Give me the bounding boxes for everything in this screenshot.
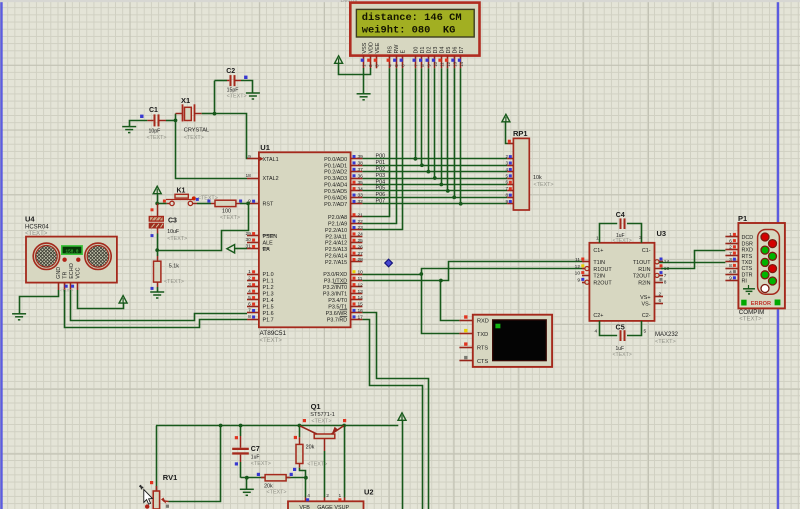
wire LCD RS to U1 pin 21: [362, 68, 389, 216]
P1 pin 7 RTS: [725, 255, 738, 257]
svg-text:P0.3/AD3: P0.3/AD3: [324, 176, 347, 182]
button K1: [157, 203, 167, 205]
svg-text:6: 6: [729, 238, 732, 244]
power terminal VCC (reset): [153, 186, 161, 194]
wire bus P07 U1 to RP1: [362, 203, 507, 205]
svg-text:3: 3: [505, 160, 508, 165]
svg-text:VEE: VEE: [375, 42, 381, 53]
wire U4 GND to ground: [20, 290, 59, 313]
wire VCC to RP1 pin 1: [506, 122, 508, 144]
svg-text:39: 39: [358, 154, 364, 160]
wire RV1 wiper to rail drop: [169, 426, 221, 502]
svg-text:P3.3/INT1: P3.3/INT1: [323, 291, 347, 297]
svg-text:8: 8: [664, 280, 667, 286]
svg-text:P1.6: P1.6: [263, 311, 274, 317]
svg-text:6: 6: [248, 301, 251, 307]
wire rail down to C7: [240, 426, 242, 437]
junction RST node: [246, 202, 250, 206]
R4 markers: [294, 436, 297, 439]
svg-text:10: 10: [575, 271, 581, 277]
U1 pin 5 P1.4: [247, 299, 259, 301]
svg-text:VDD: VDD: [368, 42, 374, 53]
U1 pin 39 P0.0/AD0: [351, 158, 363, 160]
wire U1 RXD (pin10) to MAX232 R1OUT: [362, 274, 421, 276]
svg-text:U2: U2: [364, 488, 374, 497]
svg-text:P2.7/A15: P2.7/A15: [325, 260, 347, 266]
svg-text:C1+: C1+: [593, 248, 603, 254]
wire C7 bottom node: [241, 477, 306, 479]
wire LCD D5 drop: [447, 68, 449, 191]
U1 pin 2 P1.1: [247, 280, 259, 282]
load cell U2 body: [288, 501, 364, 509]
ground (LCD VSS): [357, 94, 371, 100]
svg-text:10uF: 10uF: [167, 229, 179, 235]
svg-text:36: 36: [358, 173, 364, 179]
svg-text:P2.0/A8: P2.0/A8: [328, 215, 347, 221]
U4 left transducer: [33, 243, 59, 269]
svg-text:C2+: C2+: [593, 313, 603, 319]
U1 pin 23 P2.2/A10: [351, 229, 363, 231]
P1 DB9 pin 3 indicator: [761, 258, 769, 266]
svg-text:T1IN: T1IN: [593, 260, 605, 266]
svg-text:AT89C51: AT89C51: [260, 330, 287, 337]
U4 distance display: [62, 246, 82, 254]
svg-text:ECHO: ECHO: [69, 263, 75, 279]
svg-text:150.0: 150.0: [66, 249, 79, 254]
svg-text:P00: P00: [376, 154, 386, 160]
junction reset top node: [155, 202, 159, 206]
svg-text:P2.2/A10: P2.2/A10: [325, 228, 347, 234]
P1 pin 9 RI: [725, 280, 738, 282]
svg-text:ERROR: ERROR: [751, 301, 771, 307]
wire rail down to RV1: [156, 426, 158, 492]
wire R1IN to COMPIM RXD: [661, 251, 725, 269]
U1 pin 8 P1.7: [247, 319, 259, 321]
svg-text:TXD: TXD: [477, 332, 488, 338]
resistor R2 5.1k: [157, 250, 159, 256]
svg-text:7: 7: [664, 273, 667, 279]
svg-text:33: 33: [358, 193, 364, 199]
svg-text:10: 10: [358, 269, 364, 275]
MAX232 U3 body: [589, 243, 654, 321]
svg-text:6: 6: [505, 180, 508, 185]
U1 pin 14 P3.4/T0: [351, 299, 363, 301]
svg-text:P1.0: P1.0: [263, 272, 274, 278]
svg-text:D0: D0: [414, 47, 420, 54]
svg-text:P3.2/INT0: P3.2/INT0: [323, 285, 347, 291]
svg-text:XTAL1: XTAL1: [263, 157, 279, 163]
svg-text:12: 12: [446, 61, 451, 66]
U3 pin 9 R2OUT: [582, 282, 589, 284]
R2 marker: [151, 287, 154, 290]
K1 marker dot: [192, 196, 196, 200]
junction rail Q1: [342, 424, 346, 428]
svg-text:X1: X1: [181, 96, 190, 105]
svg-text:1: 1: [596, 236, 599, 242]
U3 pin 7 T2OUT: [655, 275, 664, 277]
svg-text:ST5771-1: ST5771-1: [310, 412, 335, 418]
P1 DB9 pin 4 indicator: [761, 271, 769, 279]
svg-text:P02: P02: [376, 166, 386, 172]
svg-text:<TEXT>: <TEXT>: [227, 94, 247, 100]
top edge strip: [0, 0, 800, 2]
wire EA terminal to pin 31: [235, 248, 247, 250]
U1 pin 16 P3.6/WR: [351, 312, 363, 314]
svg-text:<TEXT>: <TEXT>: [147, 135, 167, 141]
svg-text:8: 8: [729, 263, 732, 269]
wire LCD D1 drop: [421, 68, 423, 165]
svg-text:7: 7: [248, 308, 251, 314]
svg-text:RW: RW: [394, 44, 400, 54]
svg-text:20k: 20k: [306, 445, 315, 451]
svg-text:<TEXT>: <TEXT>: [655, 339, 676, 345]
svg-text:U4: U4: [25, 214, 35, 223]
P1 status squares: [741, 300, 746, 306]
wire LCD RW to U1 pin 22: [362, 68, 396, 223]
terminal pin RTS: [459, 347, 472, 349]
terminal screen: [493, 320, 547, 361]
wire bus P00 U1 to RP1: [362, 158, 507, 160]
RP1 pin 7: [507, 190, 513, 192]
wire LCD D6 drop: [454, 68, 456, 197]
P1 pin 3 TXD: [725, 261, 738, 263]
junction C2 node: [213, 112, 217, 116]
RP1 pin 1: [508, 143, 514, 145]
potentiometer RV1: [156, 486, 158, 491]
U1 pin 1 P1.0: [247, 274, 259, 276]
svg-text:distance: 146 CM: distance: 146 CM: [362, 12, 462, 24]
svg-text:2: 2: [326, 493, 329, 499]
U3 pin 2 VS+: [655, 296, 664, 298]
U1 pin 28 P2.7/A15: [351, 261, 363, 263]
svg-text:T1OUT: T1OUT: [633, 260, 651, 266]
wire bus P01 U1 to RP1: [362, 165, 507, 167]
svg-text:P06: P06: [376, 192, 386, 198]
U1 pin 38 P0.1/AD1: [351, 165, 363, 167]
svg-text:3: 3: [248, 282, 251, 288]
svg-text:8: 8: [248, 314, 251, 320]
svg-text:P07: P07: [376, 199, 386, 205]
terminal cursor: [495, 324, 500, 329]
U1 pin 34 P0.5/AD5: [351, 190, 363, 192]
wire bus P04 U1 to RP1: [362, 184, 507, 186]
U1 pin 19 XTAL1: [247, 158, 259, 160]
U1 pin 17 P3.7/RD: [351, 319, 363, 321]
svg-text:RTS: RTS: [742, 254, 753, 260]
wire LCD D0 drop: [415, 68, 417, 159]
svg-text:13: 13: [452, 61, 457, 66]
svg-text:RXD: RXD: [477, 319, 489, 325]
svg-text:<TEXT>: <TEXT>: [613, 352, 632, 358]
svg-text:P2.1/A9: P2.1/A9: [328, 222, 347, 228]
svg-text:1uF: 1uF: [616, 346, 625, 352]
U1 pin 32 P0.7/AD7: [351, 203, 363, 205]
svg-text:1: 1: [339, 493, 342, 499]
svg-text:P04: P04: [376, 179, 386, 185]
U1 overline RD: [340, 315, 347, 317]
wire VDD to VCC arrow: [339, 63, 371, 74]
svg-text:T2IN: T2IN: [593, 274, 605, 280]
svg-text:D7: D7: [459, 47, 465, 54]
junction R3/R4/U2: [304, 476, 308, 480]
svg-text:RP1: RP1: [513, 129, 528, 138]
wire node up to C2: [214, 81, 216, 114]
svg-text:3: 3: [729, 257, 732, 263]
svg-text:11: 11: [358, 276, 363, 282]
P1 pin 6 DSR: [725, 243, 738, 245]
P1 DB9 pin 2 indicator: [761, 246, 769, 254]
svg-text:5.1k: 5.1k: [169, 263, 179, 269]
P1 pin 2 RXD: [725, 249, 738, 251]
U1 pin 36 P0.3/AD3: [351, 178, 363, 180]
U1 pin 22 P2.1/A9: [351, 223, 363, 225]
U1 pin 21 P2.0/A8: [351, 216, 363, 218]
RP1 pin 6: [507, 184, 513, 186]
C1 marker: [140, 115, 143, 118]
wire to ground (C7): [246, 478, 248, 489]
wire C1 right to crystal node: [166, 120, 176, 122]
svg-text:<TEXT>: <TEXT>: [613, 238, 632, 244]
U3 pin 10 T2IN: [582, 275, 589, 277]
svg-text:P0.6/AD6: P0.6/AD6: [324, 195, 347, 201]
junction C3 bottom node: [155, 248, 159, 252]
U3 pin 14 T1OUT: [655, 261, 664, 263]
RP1 pin 5: [507, 178, 513, 180]
crystal X1: [182, 104, 184, 121]
svg-text:C2-: C2-: [642, 313, 651, 319]
K1 marker: [163, 200, 166, 203]
svg-text:10k: 10k: [533, 175, 542, 181]
U4 pin markers: [65, 285, 68, 288]
U1 pin 9 RST: [247, 203, 259, 205]
svg-text:1: 1: [248, 269, 251, 275]
svg-text:U3: U3: [657, 229, 667, 238]
wire C1 left to ground: [130, 121, 148, 127]
svg-text:U1: U1: [260, 143, 270, 152]
power terminal VCC (LCD): [335, 56, 343, 64]
svg-text:10pF: 10pF: [149, 129, 161, 135]
svg-text:RS: RS: [388, 46, 394, 54]
wire LCD D3 drop: [434, 68, 436, 178]
svg-text:RV1: RV1: [163, 473, 177, 482]
capacitor C7: [240, 436, 242, 448]
svg-text:P01: P01: [376, 160, 386, 166]
U1 pin 31 EA: [247, 248, 259, 250]
svg-text:2: 2: [729, 245, 732, 251]
svg-text:P3.4/T0: P3.4/T0: [328, 298, 347, 304]
wire U4 TR to U1 P1.7: [65, 290, 248, 328]
svg-text:VCC: VCC: [75, 267, 81, 278]
U1 pin 6 P1.5: [247, 306, 259, 308]
sheet border left: [0, 0, 2, 509]
svg-text:37: 37: [358, 167, 364, 173]
sheet border right: [777, 0, 779, 509]
P1 DB9 pin 5 indicator: [761, 285, 769, 293]
svg-text:11: 11: [575, 257, 580, 263]
U1 pin 33 P0.6/AD6: [351, 197, 363, 199]
svg-text:DTR: DTR: [742, 272, 753, 278]
svg-text:CRYSTAL: CRYSTAL: [184, 127, 209, 133]
wire TXD to terminal RXD: [441, 281, 460, 321]
Q1 base wire to U2 pin 2: [324, 439, 326, 452]
power terminal VCC (rail): [398, 413, 406, 421]
wire RXD up to R1OUT: [422, 269, 583, 275]
P1 pin 8 CTS: [725, 268, 738, 270]
svg-text:C5: C5: [616, 322, 625, 331]
svg-text:VS+: VS+: [640, 295, 650, 301]
wire LCD D7 drop: [460, 68, 462, 203]
wire rail down to R4: [299, 426, 301, 438]
svg-text:3: 3: [639, 235, 642, 241]
svg-text:24: 24: [358, 232, 364, 238]
svg-text:<TEXT>: <TEXT>: [311, 418, 331, 424]
R3 markers: [257, 473, 260, 476]
U3 pin 13 R1IN: [655, 268, 664, 270]
U1 pin 13 P3.3/INT1: [351, 293, 363, 295]
C3 markers: [151, 208, 154, 211]
junction rail R4: [298, 424, 302, 428]
svg-text:C2: C2: [226, 68, 235, 75]
svg-text:9: 9: [577, 277, 580, 283]
svg-text:26: 26: [358, 244, 364, 250]
svg-text:VS-: VS-: [642, 302, 651, 308]
wire U4 VCC to power: [78, 290, 124, 309]
wire node to XTAL1: [215, 114, 248, 159]
wire U1 P3.7 (pin17) down right: [362, 320, 422, 509]
svg-text:RST: RST: [263, 202, 274, 208]
svg-text:<TEXT>: <TEXT>: [167, 236, 187, 242]
terminal pin TXD: [459, 333, 472, 335]
svg-text:4: 4: [307, 493, 310, 499]
svg-text:P1.2: P1.2: [263, 285, 274, 291]
svg-text:34: 34: [358, 186, 364, 192]
wire T1OUT to COMPIM TXD: [659, 262, 725, 264]
mouse cursor: [139, 485, 143, 489]
U3 R1OUT bubble: [585, 267, 589, 271]
RV1 red dot: [145, 504, 149, 508]
RP1 pin 4: [507, 171, 513, 173]
junction RXD/terminal: [419, 272, 423, 276]
U1 overline INT0: [334, 283, 348, 285]
P1 pin 1 DCD: [725, 236, 738, 238]
power terminal VCC (RP1): [502, 114, 510, 122]
wire main rail: [156, 425, 398, 427]
svg-text:wei9ht: 080 KG: wei9ht: 080 KG: [362, 25, 456, 37]
svg-text:9: 9: [729, 276, 732, 282]
RP1 pin 9: [507, 203, 513, 205]
U2 pin markers: [306, 498, 309, 501]
svg-text:TXD: TXD: [742, 260, 753, 266]
svg-text:<TEXT>: <TEXT>: [260, 338, 283, 344]
ground (R2): [150, 292, 164, 298]
ground (C1): [122, 127, 136, 133]
wire bus P05 U1 to RP1: [362, 190, 507, 192]
svg-text:12: 12: [575, 264, 581, 270]
svg-text:2: 2: [248, 275, 251, 281]
wire U1 P3.6 (pin16) down right: [362, 313, 428, 509]
svg-text:C7: C7: [251, 446, 260, 453]
U1 pin 25 P2.4/A12: [351, 242, 363, 244]
U1 pin 37 P0.2/AD2: [351, 171, 363, 173]
svg-text:14: 14: [459, 61, 464, 66]
U1 pin 24 P2.3/A11: [351, 236, 363, 238]
svg-text:22: 22: [358, 219, 364, 225]
ground (C2): [246, 93, 260, 99]
junction D0: [414, 157, 418, 161]
resistor pack RP1 body: [513, 138, 529, 210]
wire VSS to ground: [363, 68, 365, 94]
svg-text:4: 4: [248, 288, 251, 294]
U1 pin 3 P1.2: [247, 286, 259, 288]
svg-text:VSUP: VSUP: [334, 505, 349, 509]
U1 pin 35 P0.4/AD4: [351, 184, 363, 186]
R1 markers: [196, 198, 199, 201]
U1 pin 29 PSEN: [247, 235, 259, 237]
RV1 marker: [150, 481, 153, 484]
svg-text:30: 30: [245, 237, 251, 243]
wire to C2 left: [215, 80, 228, 82]
U1 pin 30 ALE: [247, 242, 259, 244]
svg-text:C1-: C1-: [642, 248, 651, 254]
U3 pin 6 VS-: [655, 303, 664, 305]
U1 pin 7 P1.6: [247, 312, 259, 314]
svg-text:P03: P03: [376, 173, 386, 179]
svg-text:TR: TR: [63, 272, 69, 279]
svg-text:XTAL2: XTAL2: [263, 176, 279, 182]
svg-text:DCD: DCD: [742, 235, 754, 241]
svg-text:8: 8: [505, 193, 508, 198]
virtual terminal body: [473, 315, 552, 367]
U1 XTAL1 input arrow: [260, 157, 264, 161]
svg-text:4: 4: [729, 269, 732, 275]
junction D1: [420, 163, 424, 167]
U1 overline WR: [340, 309, 348, 311]
capacitor C3 10uF (electrolytic): [157, 203, 159, 216]
svg-text:100: 100: [222, 208, 231, 214]
svg-text:21: 21: [358, 212, 364, 218]
svg-text:2: 2: [505, 154, 508, 159]
junction D3: [433, 176, 437, 180]
svg-text:6: 6: [659, 298, 662, 304]
svg-text:<TEXT>: <TEXT>: [251, 461, 271, 467]
terminal pin RXD: [459, 320, 472, 322]
P1 DB9 pin 9 indicator: [769, 277, 777, 285]
wire LCD D4 drop: [441, 68, 443, 184]
svg-text:2: 2: [659, 291, 662, 297]
svg-text:4: 4: [505, 167, 508, 172]
svg-text:5: 5: [248, 295, 251, 301]
svg-text:C3: C3: [168, 218, 177, 225]
C7 markers: [235, 436, 238, 439]
svg-text:P1: P1: [738, 214, 747, 223]
svg-text:DSR: DSR: [742, 241, 753, 247]
junction D7: [459, 202, 463, 206]
svg-text:27: 27: [358, 251, 364, 257]
U4 right transducer: [85, 243, 111, 269]
RP1 pin 8: [507, 197, 513, 199]
svg-text:20k: 20k: [264, 483, 273, 489]
svg-text:R1IN: R1IN: [638, 267, 650, 273]
svg-text:25: 25: [358, 238, 364, 244]
P1 D-shell: [758, 230, 780, 295]
U3 R2OUT bubble: [585, 280, 589, 284]
svg-text:P1.3: P1.3: [263, 291, 274, 297]
junction ground drop: [245, 476, 249, 480]
svg-text:HCSR04: HCSR04: [25, 224, 49, 230]
svg-text:P05: P05: [376, 186, 386, 192]
P1 DB9 pin 6 indicator: [769, 240, 777, 248]
svg-text:<TEXT>: <TEXT>: [534, 182, 554, 188]
